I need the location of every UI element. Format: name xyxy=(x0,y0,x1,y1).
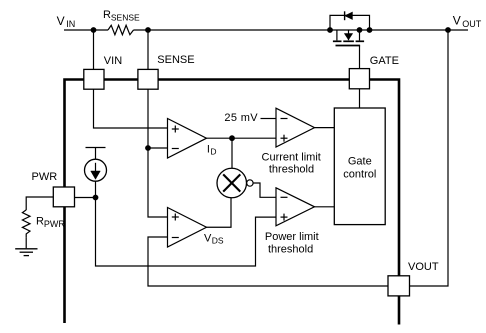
transistor Q1 body diode arrow xyxy=(345,12,353,19)
svg-text:VOUT: VOUT xyxy=(408,261,439,273)
node junction dot at RSENSE left xyxy=(91,27,97,33)
pin SENSE xyxy=(138,69,158,89)
transistor Q1 MOSFET channel contact bars xyxy=(333,40,364,42)
svg-text:SENSE: SENSE xyxy=(157,54,194,66)
ground xyxy=(15,249,37,256)
svg-text:R: R xyxy=(103,9,111,21)
wire 25 mV to current limit minus input xyxy=(261,118,277,120)
wire power limit output to gate control xyxy=(315,206,335,208)
multiplier output bubble xyxy=(247,180,253,186)
wire VIN dot down to VIN pin xyxy=(93,30,95,69)
transistor Q1 body diode loop xyxy=(330,15,370,30)
svg-text:threshold: threshold xyxy=(269,163,314,175)
gate control block U3 xyxy=(334,108,385,225)
op-amp power limit comparator xyxy=(276,188,315,226)
wire ID amp output to current limit plus input xyxy=(207,137,277,139)
svg-text:OUT: OUT xyxy=(462,19,482,29)
svg-text:Power limit: Power limit xyxy=(265,231,319,243)
IC boundary outline xyxy=(65,80,400,325)
svg-text:VIN: VIN xyxy=(104,55,122,67)
svg-text:Current limit: Current limit xyxy=(262,152,321,164)
wire VDS minus input to VOUT pin xyxy=(148,237,388,286)
wire SENSE dot down to SENSE pin xyxy=(147,30,149,69)
svg-text:threshold: threshold xyxy=(268,244,313,256)
wire SENSE pin down to VDS amp plus input xyxy=(148,89,168,217)
label RPWR xyxy=(36,215,65,229)
node junction dot at RSENSE right xyxy=(145,27,151,33)
pin VIN xyxy=(84,69,104,89)
wire PWR pin to PWR node xyxy=(75,197,96,199)
op-amp current limit comparator xyxy=(276,108,315,147)
svg-text:V: V xyxy=(453,14,461,28)
resistor RSENSE xyxy=(108,25,134,34)
pin VOUT xyxy=(388,276,410,296)
svg-text:V: V xyxy=(57,14,65,28)
node junction dot ID output xyxy=(229,135,235,141)
op-amp VDS sense amplifier xyxy=(168,208,207,248)
label VDS xyxy=(204,232,224,245)
label VIN supply xyxy=(57,14,76,29)
transistor Q1 MOSFET body stub with arrow xyxy=(348,31,350,41)
svg-text:control: control xyxy=(343,168,376,180)
pin PWR xyxy=(53,187,74,207)
label RSENSE xyxy=(103,9,140,22)
node junction dot at MOSFET body xyxy=(357,27,363,33)
wire gate bar down to GATE pin xyxy=(359,46,361,69)
svg-text:IN: IN xyxy=(66,19,75,29)
node junction dot PWR xyxy=(93,195,99,201)
wire current limit output to gate control xyxy=(315,127,335,129)
wire top rail VIN to VOUT xyxy=(64,29,468,31)
svg-text:SENSE: SENSE xyxy=(111,12,140,22)
node junction dot at VOUT xyxy=(445,27,451,33)
transistor Q1 body diode cathode bar xyxy=(344,11,346,20)
wire PWR node to power limit plus input xyxy=(96,198,277,267)
wire VOUT node down right side xyxy=(410,30,449,286)
svg-text:D: D xyxy=(210,147,216,157)
svg-text:R: R xyxy=(36,215,44,227)
wire current source to PWR node xyxy=(95,181,97,197)
pin GATE xyxy=(349,69,369,89)
label current limit threshold xyxy=(262,152,321,176)
wire VDS amp output up to multiplier xyxy=(207,198,232,227)
current source I1 arrow xyxy=(95,163,97,172)
wire SENSE branch to ID amp minus input xyxy=(148,147,168,149)
svg-text:25 mV: 25 mV xyxy=(224,112,258,124)
wire multiplier to power limit minus input xyxy=(253,183,276,197)
transistor Q1 MOSFET source stub xyxy=(336,30,338,40)
label VOUT supply xyxy=(453,14,482,30)
node junction dot at MOSFET source xyxy=(327,27,333,33)
resistor RPWR xyxy=(22,210,30,238)
svg-text:PWR: PWR xyxy=(32,171,58,183)
svg-text:PWR: PWR xyxy=(44,219,65,229)
node junction dot at MOSFET drain xyxy=(367,27,373,33)
node junction dot SENSE / ID minus xyxy=(145,145,151,151)
transistor Q1 MOSFET gate bar xyxy=(336,45,361,47)
svg-text:Gate: Gate xyxy=(348,155,372,167)
wire bar to current source xyxy=(95,148,97,160)
multiplier U2 circle with X xyxy=(217,168,247,198)
svg-text:DS: DS xyxy=(212,236,224,246)
label power limit threshold xyxy=(265,231,319,256)
wire RPWR to ground xyxy=(25,237,27,248)
current source I1 circle xyxy=(85,159,107,181)
wire gate control to GATE pin xyxy=(359,89,361,108)
current source I1 top bar xyxy=(86,147,106,149)
op-amp ID sense amplifier xyxy=(168,119,207,159)
label ID xyxy=(207,143,217,156)
transistor Q1 MOSFET drain stub xyxy=(359,30,361,40)
wire ID output down to multiplier xyxy=(231,138,233,168)
wire PWR pin to RPWR xyxy=(26,197,53,210)
wire VIN pin to ID amp plus input xyxy=(94,89,168,128)
svg-text:GATE: GATE xyxy=(370,55,399,67)
